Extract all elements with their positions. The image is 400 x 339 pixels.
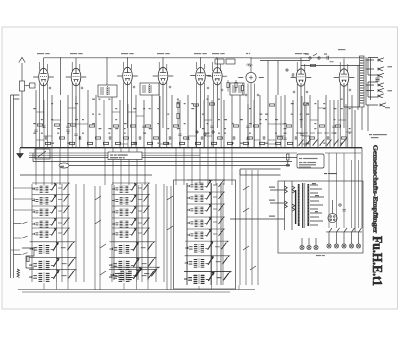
- coil unit L10: [112, 228, 150, 238]
- junction dots: [35, 57, 352, 148]
- coil unit L17: [29, 257, 77, 270]
- IF transformer T3: [230, 83, 244, 95]
- tube V3 RV12P2000: [121, 53, 134, 128]
- tube V4 RV12P2000: [157, 53, 170, 128]
- coil unit L9: [112, 218, 150, 228]
- jack J5: [378, 88, 384, 92]
- antenna A1: [19, 57, 35, 147]
- terminal labels: [316, 255, 321, 256]
- wave switch row: [296, 133, 346, 146]
- rectifier tube V10: [328, 200, 337, 223]
- bus 5: [60, 165, 290, 167]
- jack J3: [378, 73, 384, 77]
- jacks right: [366, 57, 392, 108]
- tube V6 RV12P2000: [212, 53, 225, 128]
- bus 2: [29, 153, 361, 155]
- earth ground E1: [17, 148, 23, 158]
- tube V2 RV12P2000: [70, 53, 83, 128]
- coil unit L7: [112, 194, 150, 204]
- jack J2: [378, 67, 384, 71]
- terminal P2: [307, 245, 311, 249]
- coil unit L13: [187, 204, 225, 214]
- bottom connection lines: [18, 290, 255, 293]
- band verticals: [44, 96, 346, 148]
- main bus: [20, 147, 362, 149]
- coil unit L8: [112, 206, 150, 216]
- note box right: [286, 154, 324, 168]
- second top rail right: [260, 61, 360, 101]
- coil unit L4: [32, 218, 70, 228]
- coil unit L20: [109, 257, 157, 270]
- filter box F1: [215, 59, 235, 64]
- coil unit L5: [32, 228, 70, 238]
- jack J6: [378, 94, 384, 98]
- terminal P1: [300, 245, 304, 249]
- terminal P5: [334, 244, 338, 248]
- resistor row A: [37, 103, 340, 127]
- band filter bank 3 boxed: [174, 180, 236, 289]
- coil unit L15: [187, 229, 225, 239]
- tube V7 round DF: [246, 53, 256, 128]
- coil unit L1: [32, 183, 70, 193]
- coil unit L16: [30, 242, 76, 254]
- bank1 switch box: [22, 248, 34, 268]
- top rail: [44, 57, 365, 59]
- terminal group 2: [326, 153, 362, 248]
- jack J4: [378, 83, 384, 87]
- small note top right: [369, 134, 372, 135]
- bus 4: [33, 153, 292, 162]
- power box: [278, 181, 363, 253]
- bus 3: [29, 157, 297, 159]
- terminal P4: [327, 244, 331, 248]
- label 220: [59, 163, 69, 168]
- band filter bank 1: [29, 183, 84, 282]
- output coil L9: [360, 56, 365, 107]
- bank left stubs: [11, 188, 36, 250]
- transformer TR1: [296, 183, 324, 228]
- tube side leads: [33, 76, 354, 78]
- selector box S1: [35, 149, 50, 159]
- tube V8 RV12P2000: [295, 53, 308, 128]
- coil unit L25: [184, 271, 232, 284]
- coil unit L26: [184, 271, 232, 284]
- inter-bank switches: [95, 186, 256, 275]
- note box N1: [108, 152, 142, 160]
- coupling caps: [376, 78, 380, 81]
- coil unit L21: [109, 269, 157, 282]
- band filter bank 2: [109, 183, 164, 282]
- terminal P3: [314, 245, 318, 249]
- tube V9 RL12P10: [338, 49, 349, 128]
- coil unit L19: [110, 242, 156, 254]
- lower resistor row: [45, 131, 292, 145]
- jack J7: [380, 103, 386, 107]
- terminal P8: [356, 244, 360, 248]
- band micro wiring: [34, 86, 352, 290]
- coil unit L3: [32, 206, 70, 216]
- IF transformer T1: [98, 85, 117, 97]
- jack J1: [378, 58, 384, 62]
- tube V5 RV12P2000: [194, 53, 207, 128]
- wire left pair: [11, 95, 20, 278]
- grid resistors cluster: [227, 80, 244, 95]
- interbank verticals: [36, 148, 258, 290]
- wire grid verticals: [36, 58, 358, 148]
- coil unit L14: [187, 217, 225, 227]
- coil unit L23: [185, 241, 229, 253]
- coil unit L24: [185, 256, 231, 268]
- svg-text:Gemeinschafts-Empfänger: Gemeinschafts-Empfänger: [372, 145, 379, 234]
- interstage resistor chain: [177, 99, 179, 127]
- coil unit L6: [112, 183, 150, 193]
- component value labels: [33, 99, 350, 144]
- terminal group 1: [300, 238, 318, 250]
- coil unit L2: [32, 194, 70, 204]
- coil unit L18: [29, 269, 77, 282]
- svg-text:Fu.H.E.t1: Fu.H.E.t1: [370, 236, 385, 286]
- tube V1 RV12P2000: [37, 53, 50, 128]
- tube pin wires: [40, 62, 348, 148]
- IF transformer T2: [140, 83, 159, 95]
- terminal P6: [342, 244, 346, 248]
- coil unit L11: [187, 180, 225, 190]
- resistor/cap row B: [45, 136, 346, 139]
- coil unit L22: [110, 267, 159, 280]
- coil unit L12: [187, 192, 225, 202]
- terminal P7: [349, 244, 353, 248]
- bus 6: [20, 169, 281, 175]
- rail contacts: [286, 54, 334, 77]
- right vertical wires: [344, 86, 368, 232]
